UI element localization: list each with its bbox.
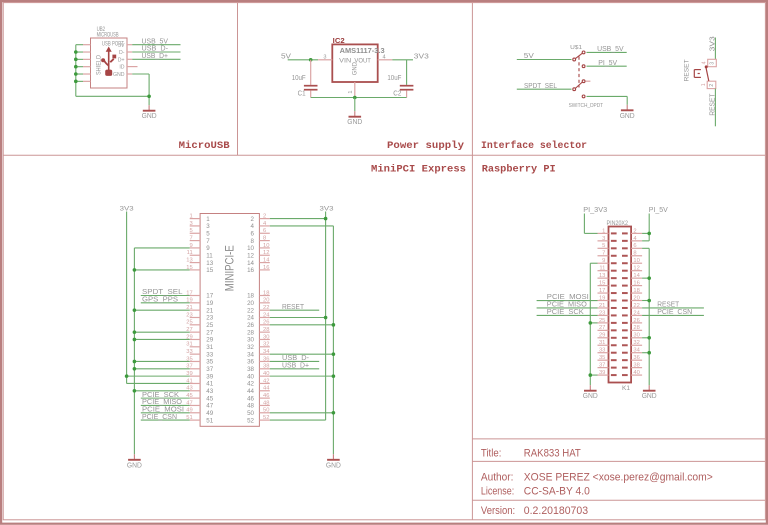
svg-text:42: 42 [247, 381, 254, 388]
svg-text:7: 7 [189, 235, 192, 241]
svg-text:39: 39 [206, 373, 213, 380]
wire 3V3 to reset button [714, 38, 716, 60]
wire 3V3 to C2 [406, 60, 408, 85]
svg-text:19: 19 [599, 295, 605, 301]
svg-text:Raspberry PI: Raspberry PI [482, 163, 556, 175]
junction pin2 K1 [647, 232, 651, 236]
svg-text:USB_5V: USB_5V [597, 44, 624, 53]
svg-text:3: 3 [323, 54, 326, 60]
svg-text:2: 2 [263, 214, 266, 220]
wire RESET K1 pin22 [642, 307, 704, 309]
svg-text:24: 24 [263, 312, 270, 318]
svg-text:30: 30 [633, 333, 639, 339]
svg-text:20: 20 [263, 298, 269, 304]
wire pin39 K1 gnd [590, 374, 597, 376]
connector MINIPCI-E right inner pin numbers [247, 216, 254, 425]
svg-text:20: 20 [633, 295, 639, 301]
ground GND MicroUSB [142, 105, 157, 120]
svg-text:10uF: 10uF [387, 73, 401, 82]
wire PCIE_MOSI pin49 [141, 412, 190, 414]
svg-text:C1: C1 [298, 88, 306, 97]
svg-text:D+: D+ [118, 57, 125, 63]
pushbutton RESET actuator symbol [694, 65, 709, 81]
svg-text:GND: GND [583, 393, 598, 400]
title block line 2 [472, 460, 765, 462]
svg-text:4: 4 [383, 54, 386, 60]
svg-text:3V3: 3V3 [320, 205, 334, 212]
wire USB_D+ pin38 [270, 368, 319, 370]
svg-text:9: 9 [602, 258, 605, 264]
svg-text:12: 12 [633, 266, 639, 272]
ground GND minipci right [326, 454, 341, 469]
svg-text:Author:: Author: [481, 471, 514, 483]
svg-text:2: 2 [633, 228, 636, 234]
svg-text:GND: GND [127, 462, 142, 469]
svg-text:Version:: Version: [481, 505, 515, 517]
svg-text:28: 28 [247, 329, 254, 336]
svg-text:D-: D- [119, 50, 125, 56]
ground GND K1 right [642, 385, 657, 400]
svg-text:GND: GND [142, 113, 157, 120]
svg-text:U$1: U$1 [570, 45, 582, 51]
svg-text:21: 21 [599, 303, 605, 309]
wires+junctions left gnd pins 15 21 27 29 35 37 43 [133, 268, 190, 392]
svg-text:5: 5 [189, 228, 192, 234]
svg-text:10: 10 [633, 258, 639, 264]
svg-text:11: 11 [599, 266, 605, 272]
ground GND minipci left [127, 454, 142, 469]
pushbutton RESET contact box pin3 [708, 59, 717, 66]
svg-text:46: 46 [247, 395, 254, 402]
svg-text:6: 6 [263, 228, 266, 234]
connector K1 left pin stubs and numbers [598, 228, 609, 376]
svg-text:16: 16 [263, 265, 269, 271]
svg-text:K1: K1 [622, 385, 631, 392]
svg-text:7: 7 [602, 251, 605, 257]
wire 3V3 minipci left vertical [126, 212, 128, 384]
svg-text:16: 16 [633, 280, 639, 286]
svg-text:22: 22 [633, 303, 639, 309]
svg-text:25: 25 [206, 322, 213, 329]
svg-text:XOSE PEREZ <xose.perez@gmail.c: XOSE PEREZ <xose.perez@gmail.com> [524, 471, 713, 483]
svg-text:PCIE_CSN: PCIE_CSN [142, 412, 177, 421]
wire pin2 to 3V3 [270, 218, 326, 220]
svg-text:44: 44 [247, 388, 254, 395]
svg-text:8: 8 [263, 235, 266, 241]
svg-text:4: 4 [251, 223, 255, 230]
svg-text:10: 10 [263, 243, 269, 249]
svg-text:24: 24 [633, 310, 640, 316]
svg-text:USB_D+: USB_D+ [282, 361, 310, 370]
svg-text:14: 14 [263, 257, 270, 263]
svg-text:18: 18 [633, 288, 639, 294]
svg-text:C2: C2 [393, 88, 401, 97]
svg-text:27: 27 [206, 329, 213, 336]
wires+junctions right gnd pins 26 34 40 50 [270, 323, 335, 415]
svg-text:0.2.20180703: 0.2.20180703 [524, 505, 588, 517]
svg-text:4: 4 [702, 61, 708, 64]
svg-text:Title:: Title: [481, 448, 502, 460]
svg-text:52: 52 [247, 417, 254, 424]
svg-text:3: 3 [189, 221, 192, 227]
svg-text:1: 1 [206, 216, 210, 223]
svg-text:50: 50 [263, 408, 269, 414]
svg-text:33: 33 [599, 348, 605, 354]
svg-text:26: 26 [247, 322, 254, 329]
svg-text:23: 23 [186, 312, 192, 318]
wire pin9 K1 to gnd [590, 262, 597, 264]
svg-text:RESET: RESET [282, 302, 304, 311]
svg-text:48: 48 [263, 400, 269, 406]
svg-text:33: 33 [206, 351, 213, 358]
svg-text:13: 13 [186, 257, 192, 263]
svg-text:25: 25 [186, 320, 192, 326]
junction power gnd [353, 96, 357, 100]
switch U$1 DPDT symbol [573, 51, 585, 98]
svg-text:5: 5 [206, 230, 210, 237]
wire PCIE_MISO pin47 [141, 404, 190, 406]
svg-text:39: 39 [599, 370, 605, 376]
svg-text:PI_3V3: PI_3V3 [583, 205, 607, 214]
svg-text:Interface selector: Interface selector [481, 140, 587, 152]
svg-text:GND: GND [347, 119, 362, 126]
svg-text:17: 17 [206, 293, 213, 300]
svg-text:PI_5V: PI_5V [649, 205, 668, 214]
wire RESET pin22 [270, 309, 319, 311]
svg-text:2: 2 [709, 84, 715, 87]
wire PCIE_MOSI K1 pin19 [537, 300, 598, 302]
svg-text:46: 46 [263, 393, 269, 399]
svg-text:RESET: RESET [708, 93, 717, 115]
ground GND K1 left [583, 385, 598, 400]
connector MINIPCI-E left inner pin numbers [206, 216, 213, 425]
wire USB_D+ [132, 58, 180, 60]
wire USB_5V [132, 44, 180, 46]
wire K1 left gnd bus [589, 263, 591, 385]
svg-text:24: 24 [247, 315, 254, 322]
connector MINIPCI-E right pin stubs and numbers [259, 214, 270, 422]
svg-text:GND: GND [620, 113, 635, 120]
svg-text:23: 23 [599, 310, 605, 316]
svg-text:37: 37 [206, 366, 213, 373]
svg-text:51: 51 [206, 417, 213, 424]
svg-text:52: 52 [263, 415, 269, 421]
svg-text:PI_5V: PI_5V [598, 58, 617, 67]
svg-text:12: 12 [263, 250, 269, 256]
section divider horizontal [3, 154, 765, 156]
wire shield vertical [75, 45, 77, 97]
svg-text:40: 40 [263, 371, 269, 377]
wire PCIE_SCK K1 pin23 [537, 314, 598, 316]
svg-text:27: 27 [599, 325, 605, 331]
svg-text:1: 1 [701, 83, 707, 86]
svg-text:3: 3 [602, 236, 605, 242]
regulator IC2 pin 1 [354, 82, 356, 98]
svg-text:29: 29 [599, 333, 605, 339]
wire pin24 to 3V3 [270, 316, 326, 318]
svg-text:49: 49 [206, 410, 213, 417]
svg-text:GPS_PPS: GPS_PPS [142, 295, 178, 304]
svg-text:3V3: 3V3 [120, 205, 134, 212]
wire SPDT_SEL pin17 [141, 295, 190, 297]
svg-text:MINIPCI-E: MINIPCI-E [223, 245, 237, 291]
svg-text:48: 48 [247, 403, 254, 410]
svg-text:MicroUSB: MicroUSB [179, 140, 231, 152]
svg-text:32: 32 [633, 340, 639, 346]
capacitor C1 [310, 60, 312, 85]
svg-text:37: 37 [599, 363, 605, 369]
svg-text:6: 6 [633, 243, 636, 249]
wire pin25 K1 gnd [590, 322, 597, 324]
connector K1 pin contacts [611, 232, 628, 376]
wire GPS_PPS pin19 [141, 302, 190, 304]
wire switch to GND [587, 95, 628, 97]
svg-text:GND: GND [113, 72, 125, 78]
svg-text:2: 2 [251, 216, 255, 223]
svg-text:SPDT_SEL: SPDT_SEL [524, 81, 557, 90]
svg-text:12: 12 [247, 252, 254, 259]
wire SPDT_SEL to switch [517, 88, 572, 90]
svg-text:20: 20 [247, 300, 254, 307]
connector UB2 USB symbol [101, 47, 116, 76]
svg-text:10: 10 [247, 245, 254, 252]
capacitor C2 [400, 85, 414, 87]
junction C1 top [309, 58, 313, 62]
svg-text:32: 32 [247, 344, 254, 351]
svg-text:15: 15 [206, 267, 213, 274]
svg-text:SWITCH_DPDT: SWITCH_DPDT [569, 103, 604, 109]
svg-text:19: 19 [206, 300, 213, 307]
wire power gnd bottom [311, 97, 407, 99]
wire 5V to switch [517, 59, 572, 61]
svg-text:5V: 5V [524, 51, 534, 60]
svg-text:PCIE_CSN: PCIE_CSN [657, 307, 692, 316]
svg-text:32: 32 [263, 342, 269, 348]
svg-text:License:: License: [481, 486, 514, 498]
svg-text:3: 3 [709, 62, 715, 65]
regulator IC2 body [332, 44, 377, 82]
wire pin4 to right gnd bus [270, 225, 334, 227]
wires+junctions K1 right gnd pins 14 20 30 34 [642, 276, 651, 354]
svg-text:6: 6 [251, 230, 255, 237]
svg-text:16: 16 [247, 267, 254, 274]
section divider vertical MicroUSB/Power [237, 3, 239, 156]
svg-text:30: 30 [247, 337, 254, 344]
svg-text:36: 36 [247, 359, 254, 366]
svg-text:14: 14 [633, 273, 640, 279]
connector UB2 right pin stubs [127, 45, 138, 74]
wire shield bottom [76, 95, 149, 97]
svg-text:1: 1 [189, 214, 192, 220]
svg-text:GND: GND [642, 393, 657, 400]
svg-text:40: 40 [247, 373, 254, 380]
svg-text:1: 1 [348, 90, 354, 93]
svg-text:41: 41 [206, 381, 213, 388]
svg-text:47: 47 [206, 403, 213, 410]
svg-text:29: 29 [206, 337, 213, 344]
title block top line [472, 438, 765, 440]
connector UB2 right pin names [113, 43, 125, 78]
svg-text:7: 7 [206, 238, 210, 245]
connector K1 body [609, 227, 632, 383]
svg-text:MiniPCI Express: MiniPCI Express [371, 163, 466, 175]
svg-text:45: 45 [206, 395, 213, 402]
ground GND Interface selector [620, 105, 635, 120]
svg-text:GND: GND [352, 62, 359, 75]
wire PCIE_SCK pin45 [141, 397, 190, 399]
wire PI_5V to pins 2 4 [648, 214, 650, 241]
svg-text:35: 35 [206, 359, 213, 366]
wire USB_5V from switch [587, 51, 627, 53]
svg-text:ID: ID [119, 65, 124, 71]
svg-text:33: 33 [186, 349, 192, 355]
svg-text:13: 13 [206, 260, 213, 267]
wire minipci right gnd bus [332, 226, 334, 454]
svg-text:38: 38 [633, 363, 639, 369]
connector UB2 left shield pins [76, 45, 91, 82]
title block line 3 [472, 499, 765, 501]
svg-text:50: 50 [247, 410, 254, 417]
svg-text:25: 25 [599, 318, 605, 324]
connector MINIPCI-E body [200, 214, 259, 427]
svg-text:11: 11 [206, 252, 213, 259]
junction pin39 3V3 [125, 374, 129, 378]
svg-text:3V3: 3V3 [708, 36, 717, 51]
svg-text:17: 17 [599, 288, 605, 294]
svg-text:28: 28 [263, 327, 269, 333]
svg-text:40: 40 [633, 370, 639, 376]
svg-text:AMS1117-3.3: AMS1117-3.3 [340, 48, 385, 55]
wire to power GND [354, 98, 356, 112]
svg-text:34: 34 [247, 351, 254, 358]
connector K1 right pin stubs and numbers [631, 228, 642, 376]
junction pin24 3V3 [324, 316, 328, 320]
svg-text:23: 23 [206, 315, 213, 322]
section divider vertical center [471, 3, 473, 520]
wire 3V3 minipci right vertical [325, 212, 327, 421]
svg-text:1: 1 [602, 228, 605, 234]
svg-text:RAK833 HAT: RAK833 HAT [524, 448, 581, 460]
svg-text:22: 22 [247, 307, 254, 314]
svg-text:34: 34 [263, 349, 270, 355]
svg-text:5V: 5V [281, 51, 291, 60]
svg-text:42: 42 [263, 378, 269, 384]
svg-text:GND: GND [326, 462, 341, 469]
regulator IC2 pin 3 [318, 59, 332, 61]
svg-text:10uF: 10uF [292, 73, 306, 82]
wire 5V input [288, 59, 318, 61]
wire PI_5V from switch [587, 65, 627, 67]
svg-text:21: 21 [206, 307, 213, 314]
svg-text:31: 31 [186, 342, 192, 348]
pushbutton RESET contact box pin2 [707, 81, 716, 88]
svg-text:USB_D+: USB_D+ [142, 51, 169, 60]
svg-text:SHIELD: SHIELD [97, 54, 103, 75]
regulator IC2 pin 4 [378, 59, 393, 61]
svg-text:11: 11 [187, 250, 193, 256]
svg-text:3: 3 [206, 223, 210, 230]
switch U$1 nc pin stub [585, 80, 590, 82]
svg-text:34: 34 [633, 348, 640, 354]
svg-text:26: 26 [263, 320, 269, 326]
wire minipci left gnd bus [133, 248, 135, 454]
svg-text:5V: 5V [118, 43, 125, 49]
wire USB_D- [132, 51, 180, 53]
svg-text:30: 30 [263, 334, 269, 340]
svg-text:13: 13 [599, 273, 605, 279]
svg-text:CC-SA-BY 4.0: CC-SA-BY 4.0 [524, 486, 590, 498]
junction pin2 3V3 [324, 217, 328, 221]
svg-text:22: 22 [263, 305, 269, 311]
wire pin39 to 3V3 [127, 375, 190, 377]
svg-text:VIN: VIN [339, 57, 351, 64]
svg-text:9: 9 [206, 245, 210, 252]
wire 3V3 output [392, 59, 413, 61]
svg-text:15: 15 [599, 280, 605, 286]
wire PCIE_MISO K1 pin21 [537, 307, 598, 309]
wire PI_3V3 to pin1 [583, 214, 585, 234]
svg-text:Power supply: Power supply [387, 140, 465, 152]
svg-text:18: 18 [263, 290, 269, 296]
junction UB2 GND [147, 95, 151, 99]
junctions shield [74, 50, 78, 83]
svg-text:28: 28 [633, 325, 639, 331]
svg-text:36: 36 [263, 356, 269, 362]
svg-text:PCIE_SCK: PCIE_SCK [547, 307, 584, 316]
svg-text:38: 38 [263, 364, 269, 370]
svg-text:35: 35 [599, 355, 605, 361]
svg-text:43: 43 [206, 388, 213, 395]
wire pin9 to gnd bus [134, 247, 189, 249]
wire reset button to RESET [714, 89, 716, 127]
svg-text:31: 31 [206, 344, 213, 351]
svg-text:26: 26 [633, 318, 639, 324]
svg-text:8: 8 [633, 251, 636, 257]
connector MINIPCI-E left pin stubs and numbers [186, 214, 200, 422]
wire pin6 K1 to gnd [642, 247, 649, 249]
svg-text:14: 14 [247, 260, 254, 267]
svg-text:9: 9 [189, 243, 192, 249]
wire PCIE_CSN K1 pin24 [642, 314, 704, 316]
svg-text:44: 44 [263, 386, 270, 392]
wire K1 right gnd bus [648, 248, 650, 385]
wire USB_D- pin36 [270, 360, 319, 362]
svg-text:31: 31 [599, 340, 605, 346]
wire UB2 GND [132, 73, 149, 75]
svg-text:5: 5 [602, 243, 605, 249]
connector UB2 MicroUSB body [91, 38, 128, 88]
wire PCIE_CSN pin51 [141, 419, 190, 421]
svg-text:18: 18 [247, 293, 254, 300]
svg-text:8: 8 [251, 238, 255, 245]
svg-text:RESET: RESET [684, 59, 691, 81]
ground GND Power supply [347, 111, 362, 126]
svg-text:3V3: 3V3 [414, 52, 429, 61]
svg-text:38: 38 [247, 366, 254, 373]
svg-text:36: 36 [633, 355, 639, 361]
